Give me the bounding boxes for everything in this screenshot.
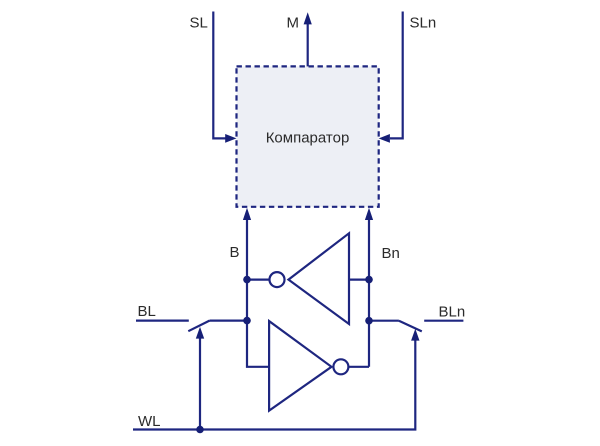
- inverter U3 output bubble: [333, 359, 348, 374]
- wire U3 output to node Bn: [348, 366, 369, 368]
- arrowhead WL left at switch: [196, 327, 204, 339]
- wire SL: [213, 12, 226, 139]
- arrowhead SL into box: [225, 134, 236, 143]
- svg-text:BLn: BLn: [439, 303, 466, 320]
- wire node Bn vertical: [368, 217, 370, 367]
- inverter U2 output bubble: [270, 272, 285, 287]
- wire node Bn to switch: [369, 320, 399, 322]
- wire WL branch left: [199, 337, 201, 430]
- comparator box U1: [237, 66, 379, 206]
- arrowhead node B into box: [243, 208, 251, 220]
- wire switch to node B: [210, 320, 248, 322]
- junction dot node B / U2 output: [243, 276, 251, 284]
- wire M: [307, 23, 309, 66]
- switch blade right (WL pass gate): [399, 321, 422, 332]
- wire BLn lead: [424, 320, 463, 322]
- wire BL lead: [136, 320, 189, 322]
- inverter U3 triangle (bottom, output right): [269, 321, 331, 411]
- arrowhead WL right at switch: [411, 329, 419, 341]
- arrowhead M up: [304, 12, 312, 24]
- wire node B vertical: [247, 217, 269, 367]
- junction dot node Bn / U2 input: [365, 276, 373, 284]
- inverter U2 triangle (top, output left): [289, 233, 350, 324]
- svg-text:SLn: SLn: [410, 14, 437, 31]
- wire SLn: [390, 12, 403, 139]
- svg-text:B: B: [230, 244, 240, 261]
- arrowhead SLn into box: [379, 134, 390, 143]
- svg-text:BL: BL: [138, 303, 156, 320]
- svg-text:SL: SL: [190, 14, 208, 31]
- svg-text:M: M: [287, 14, 300, 31]
- svg-text:Bn: Bn: [382, 245, 400, 262]
- wire WL: [133, 339, 415, 430]
- junction dot WL branch: [196, 426, 204, 434]
- arrowhead node Bn into box: [365, 208, 373, 220]
- switch blade left (WL pass gate): [188, 321, 209, 332]
- wire U2 output to node B: [247, 279, 270, 281]
- wire U2 input from node Bn: [349, 279, 369, 281]
- junction dot node B / BL: [243, 317, 251, 325]
- svg-text:Компаратор: Компаратор: [266, 130, 350, 147]
- junction dot node Bn / BLn: [365, 317, 373, 325]
- svg-text:WL: WL: [138, 413, 161, 430]
